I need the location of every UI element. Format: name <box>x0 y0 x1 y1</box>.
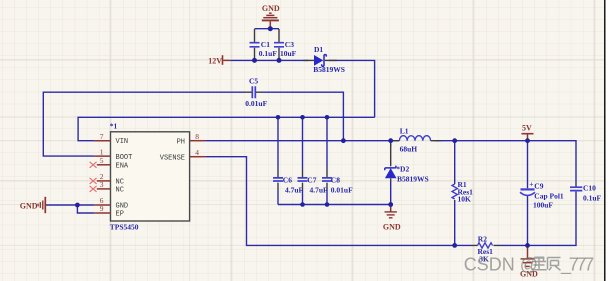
svg-text:EP: EP <box>116 211 124 219</box>
svg-text:3: 3 <box>100 180 104 189</box>
svg-text:*1: *1 <box>110 122 118 131</box>
svg-text:10K: 10K <box>458 195 472 204</box>
svg-text:C6: C6 <box>283 176 292 185</box>
svg-text:100uF: 100uF <box>533 201 553 210</box>
svg-text:ENA: ENA <box>116 163 129 171</box>
svg-text:BOOT: BOOT <box>116 154 133 162</box>
svg-text:0.1uF: 0.1uF <box>259 49 278 58</box>
svg-text:7: 7 <box>100 132 104 141</box>
svg-text:C3: C3 <box>285 40 294 49</box>
svg-text:+: + <box>529 179 533 188</box>
svg-text:4.7uF: 4.7uF <box>285 185 304 194</box>
svg-text:PH: PH <box>177 138 185 146</box>
svg-text:GND: GND <box>262 4 280 13</box>
svg-text:GND: GND <box>20 201 38 210</box>
svg-text:9: 9 <box>100 204 104 213</box>
svg-text:12V: 12V <box>208 56 222 65</box>
svg-text:D1: D1 <box>314 45 323 54</box>
svg-text:VIN: VIN <box>116 138 129 146</box>
svg-text:0.1uF: 0.1uF <box>583 194 602 203</box>
svg-text:1: 1 <box>100 147 104 156</box>
svg-text:CSDN @: CSDN @ <box>464 254 538 274</box>
svg-text:C8: C8 <box>331 176 340 185</box>
svg-text:GND: GND <box>116 203 129 211</box>
svg-text:NC: NC <box>116 187 124 195</box>
svg-text:5: 5 <box>100 156 104 165</box>
svg-text:TPS5450: TPS5450 <box>110 223 139 232</box>
svg-text:GND: GND <box>383 222 401 231</box>
svg-text:68uH: 68uH <box>400 144 418 153</box>
svg-text:*D2: *D2 <box>396 164 409 173</box>
svg-text:R2: R2 <box>478 234 487 243</box>
svg-text:4.7uF: 4.7uF <box>310 185 329 194</box>
svg-text:0.01uF: 0.01uF <box>245 99 267 108</box>
svg-text:_777: _777 <box>560 254 594 275</box>
svg-text:C9: C9 <box>534 181 543 190</box>
svg-text:0.01uF: 0.01uF <box>331 185 353 194</box>
svg-text:VSENSE: VSENSE <box>160 154 185 162</box>
svg-text:C10: C10 <box>583 183 596 192</box>
svg-text:L1: L1 <box>400 127 409 136</box>
svg-text:C1: C1 <box>261 40 270 49</box>
svg-text:4: 4 <box>195 148 199 157</box>
svg-text:8: 8 <box>195 132 199 141</box>
svg-text:C5: C5 <box>249 77 258 86</box>
svg-text:B5819WS: B5819WS <box>397 174 429 183</box>
svg-text:C7: C7 <box>307 176 316 185</box>
svg-text:10uF: 10uF <box>280 49 297 58</box>
svg-text:5V: 5V <box>522 123 532 132</box>
svg-text:Cap Pol1: Cap Pol1 <box>534 191 564 200</box>
svg-text:NC: NC <box>116 179 124 187</box>
svg-text:B5819WS: B5819WS <box>313 65 345 74</box>
